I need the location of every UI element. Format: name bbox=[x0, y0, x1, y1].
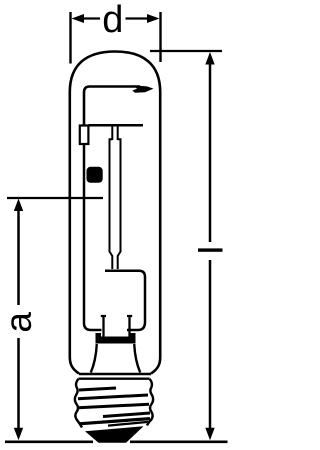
dimension l top arrowhead bbox=[205, 52, 214, 65]
svg-text:a: a bbox=[0, 312, 39, 333]
dimension l line upper segment bbox=[209, 63, 212, 242]
getter bbox=[87, 167, 103, 183]
base contact bbox=[85, 426, 144, 443]
dimension a bottom arrowhead bbox=[14, 428, 23, 441]
support wire glass clip bbox=[132, 85, 153, 93]
top support wire bbox=[84, 87, 140, 126]
pinch seal bbox=[96, 337, 136, 344]
svg-text:d: d bbox=[102, 0, 123, 41]
thread line 4 bbox=[103, 413, 150, 417]
arc tube support bar bbox=[89, 124, 144, 127]
dimension a line lower segment bbox=[17, 338, 20, 429]
crimp connector bbox=[80, 126, 89, 145]
base shell outline bbox=[75, 379, 153, 428]
dimension d left arrowhead bbox=[72, 14, 85, 23]
stem lead left bbox=[101, 316, 106, 340]
dimension d line right segment bbox=[126, 17, 148, 19]
frame wire bbox=[84, 144, 102, 330]
dimension l line lower segment bbox=[209, 260, 212, 429]
thread line 3 bbox=[78, 404, 149, 408]
dimension a extension line bbox=[7, 197, 103, 199]
dimension d right arrowhead bbox=[147, 14, 160, 23]
thread line 1 bbox=[79, 388, 116, 390]
bottom reference line right segment bbox=[130, 440, 228, 443]
arc tube body bbox=[110, 139, 121, 269]
arc tube top stem bbox=[111, 126, 113, 140]
dimension a top arrowhead bbox=[14, 199, 23, 212]
lamp outer envelope bbox=[70, 52, 160, 374]
dimension l bottom arrowhead bbox=[205, 428, 214, 441]
dimension a line upper segment bbox=[17, 210, 20, 305]
dimension d left extension bar bbox=[69, 12, 71, 64]
label l (rotated) bbox=[198, 248, 223, 251]
stem lead right bbox=[127, 316, 132, 340]
thread line 2 bbox=[78, 395, 148, 399]
stem flare bbox=[91, 344, 140, 373]
dimension d line left segment bbox=[83, 17, 100, 19]
base shell bottom edge bbox=[79, 419, 150, 424]
envelope bottom junction line bbox=[79, 373, 151, 375]
base bottom rim line bbox=[108, 422, 148, 426]
bottom reference line left segment bbox=[5, 440, 93, 443]
dimension d right extension bar bbox=[159, 12, 161, 62]
dimension l top extension line bbox=[150, 50, 222, 52]
bottom feed wire bbox=[105, 271, 145, 330]
